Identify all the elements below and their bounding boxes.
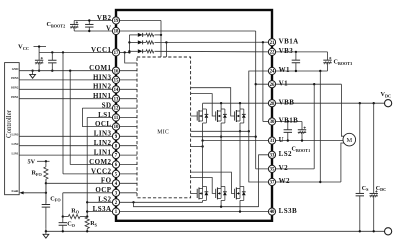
wire V1 external line <box>272 83 341 85</box>
svg-text:HIN3: HIN3 <box>11 76 19 80</box>
node LS3A tap on sense trunk <box>86 210 88 212</box>
node V1 tap <box>255 83 257 85</box>
svg-text:HIN2: HIN2 <box>11 86 19 90</box>
wire LIN2 line <box>19 145 137 147</box>
node row3 feed <box>128 50 130 52</box>
pin 31 U <box>268 137 275 144</box>
wire V2 internal line <box>256 168 272 170</box>
gate driver U1 MIC dashed box <box>137 57 191 198</box>
transistor Q6 low-side W <box>235 186 246 200</box>
node OCP filter junction <box>62 215 64 217</box>
pin 15 HIN3 <box>112 76 119 83</box>
svg-text:37: 37 <box>270 181 275 186</box>
svg-text:V1: V1 <box>279 79 289 87</box>
wire VB2 internal trunk <box>116 20 161 22</box>
svg-text:35: 35 <box>270 167 275 172</box>
wire VCC stub <box>34 46 47 48</box>
resistor RFO <box>45 163 47 167</box>
node row2 feed <box>128 41 130 43</box>
resistor bootstrap R2 <box>143 34 146 36</box>
wire W1-W2 jumper <box>319 71 321 182</box>
svg-text:LIN1: LIN1 <box>12 151 19 155</box>
pin 13 HIN1 <box>112 95 119 102</box>
capacitor VCC ceramic <box>51 52 53 60</box>
diode bootstrap D2 <box>129 34 137 36</box>
pin 10 OCL <box>112 123 119 130</box>
wire gate route Q3 <box>191 88 235 116</box>
pin 11 LS1 <box>112 114 119 121</box>
svg-text:21: 21 <box>270 41 275 46</box>
svg-text:VBB: VBB <box>279 98 295 106</box>
diode bootstrap D3 <box>129 50 137 52</box>
node FET3 drain on VBB rail <box>239 102 241 104</box>
motor M <box>343 133 356 146</box>
svg-text:CDC: CDC <box>376 186 386 192</box>
pin 21 VB1A <box>268 39 275 46</box>
wire Q3 source down <box>239 123 241 131</box>
svg-text:22: 22 <box>270 50 275 55</box>
wire W2 external line <box>272 181 341 183</box>
diode bootstrap D1 <box>129 41 137 43</box>
node CBOOT1 ceramic bottom <box>287 139 289 141</box>
svg-text:31: 31 <box>270 139 275 144</box>
capacitor CBOOT2 ceramic <box>88 21 90 25</box>
wire VB2 external line <box>74 20 116 22</box>
svg-text:LIN1: LIN1 <box>94 149 112 157</box>
svg-text:LS3A: LS3A <box>93 205 112 213</box>
svg-text:GND: GND <box>12 67 20 71</box>
transistor Q3 high-side W <box>235 109 246 123</box>
wire VCC rail <box>39 51 116 53</box>
pin 12 SD <box>112 105 119 112</box>
wire OCL line <box>82 126 137 128</box>
wire VBB external rail <box>272 102 385 104</box>
node Q5 source tap <box>220 206 222 208</box>
transistor Q4 low-side U <box>191 186 209 200</box>
pin 37 W2 <box>268 178 275 185</box>
pin 9 LIN3 <box>112 133 119 140</box>
wire FO line to pin4 <box>46 182 137 184</box>
pin 40 LS3B <box>268 208 275 215</box>
node phase-W FET tap <box>248 130 250 132</box>
svg-text:VB2: VB2 <box>97 14 112 22</box>
pin 24 W1 <box>268 67 275 74</box>
node V jumper top <box>313 83 315 85</box>
wire VB3 row to pin VB3 <box>155 50 273 53</box>
svg-text:12: 12 <box>114 107 119 112</box>
node ground junction on COM1 <box>31 70 33 72</box>
svg-text:16: 16 <box>114 69 119 74</box>
svg-text:MIC: MIC <box>157 129 169 135</box>
wire SD line and tie to OCL <box>82 107 137 109</box>
terminal VDC <box>385 100 392 107</box>
node LS2 tap on sense trunk <box>86 201 88 203</box>
pin 33 LS2 <box>268 151 275 158</box>
svg-text:24: 24 <box>270 70 275 75</box>
svg-text:14: 14 <box>114 88 119 93</box>
svg-text:LIN2: LIN2 <box>94 139 112 147</box>
wire V phase to motor <box>341 84 344 136</box>
node CBOOT3 ceramic top <box>295 51 297 53</box>
svg-text:V: V <box>106 24 112 32</box>
wire U phase line to pin <box>203 140 272 142</box>
wire VB1B external line <box>272 121 302 123</box>
wire V2 external line <box>272 168 314 170</box>
ground symbol near VCC caps <box>32 71 34 75</box>
node VB2 trunk junction <box>160 34 162 36</box>
pin 5 VCC2 <box>112 170 119 177</box>
wire low-side drain verticals <box>202 141 204 189</box>
pin 8 LIN2 <box>112 142 119 149</box>
svg-text:LIN2: LIN2 <box>12 142 19 146</box>
node W jumper bottom <box>319 181 321 183</box>
resistor bootstrap R3 <box>143 50 146 52</box>
wire FO pullup trunk <box>45 161 47 163</box>
controller block <box>5 63 20 195</box>
svg-text:HIN2: HIN2 <box>93 83 112 91</box>
wire MIC V phase line <box>191 136 256 138</box>
wire MIC W phase line <box>191 130 249 132</box>
wire Q2 source down <box>220 123 222 137</box>
wire low-side source verticals <box>202 200 204 202</box>
capacitor CBOOT1 polarized <box>301 122 303 130</box>
capacitor CBOOT3 polarized <box>327 52 329 60</box>
svg-text:U: U <box>279 136 285 144</box>
wire Q1 source to U line <box>202 123 204 141</box>
svg-text:VCC1: VCC1 <box>91 46 112 54</box>
capacitor CBOOT2 polarized <box>73 21 75 25</box>
svg-text:OCP: OCP <box>95 186 111 194</box>
wire COM1 line controller to MIC <box>19 70 137 72</box>
svg-text:LS3B: LS3B <box>279 207 298 215</box>
svg-text:40: 40 <box>270 210 275 215</box>
node rail-A stub <box>132 201 134 203</box>
pin 2 LS2 <box>112 199 119 206</box>
svg-text:VCC2: VCC2 <box>91 167 112 175</box>
svg-text:17: 17 <box>114 51 119 56</box>
svg-text:HIN1: HIN1 <box>11 95 19 99</box>
node VB1 MIC feed <box>165 41 167 43</box>
svg-text:W1: W1 <box>279 66 290 74</box>
wire V phase trunk horizontal <box>116 30 256 32</box>
svg-text:M: M <box>346 137 352 144</box>
node cap bottoms on COM1 line <box>38 70 40 72</box>
wire VB1 row to pin VB1A <box>155 41 273 43</box>
node CDC top <box>373 102 375 104</box>
wire LS2 source rail <box>134 202 259 206</box>
wire COM2 line <box>70 164 137 166</box>
node Fault junction <box>45 192 47 194</box>
node CBOOT1 ceramic top <box>287 120 289 122</box>
capacitor CBOOT3 ceramic <box>295 52 297 60</box>
node FET2 drain on VBB rail <box>220 102 222 104</box>
svg-text:18: 18 <box>114 30 119 35</box>
wire VB3 external line <box>272 51 328 53</box>
wire bootstrap feed vertical <box>128 35 130 53</box>
pin 22 VB3 <box>268 48 275 55</box>
wire W phase to motor <box>341 143 345 182</box>
svg-text:LS2: LS2 <box>279 150 292 158</box>
svg-text:30: 30 <box>270 120 275 125</box>
svg-text:LIN3: LIN3 <box>12 133 19 137</box>
node CBOOT2 junctions <box>88 19 90 21</box>
wire V1 internal line <box>256 83 272 85</box>
pin 18 V <box>112 27 119 34</box>
resistor bootstrap R1 <box>143 41 146 43</box>
svg-text:VB1A: VB1A <box>279 37 299 45</box>
node ground rail junctions <box>62 230 64 232</box>
pin 26 V1 <box>268 81 275 88</box>
capacitor VCC bulk (polarized) <box>38 52 40 60</box>
pin 6 COM2 <box>112 161 119 168</box>
wire LIN1 line <box>19 154 137 156</box>
wire HIN1 line <box>19 98 137 100</box>
svg-text:FO: FO <box>101 177 112 185</box>
pin 17 VCC1 <box>112 49 119 56</box>
wire HIN2 line <box>19 88 137 90</box>
wire LS3 source rail LS3A-LS3B <box>87 211 272 213</box>
svg-text:HIN3: HIN3 <box>93 73 112 81</box>
svg-text:COM2: COM2 <box>89 158 111 166</box>
svg-text:28: 28 <box>270 102 275 107</box>
svg-text:HIN1: HIN1 <box>93 92 112 100</box>
wire VB1 trunk <box>262 42 264 121</box>
svg-text:V2: V2 <box>279 164 289 172</box>
controller pin labels <box>11 67 19 193</box>
wire W1 external line <box>272 70 328 72</box>
wire V phase trunk vertical <box>255 31 257 169</box>
pin 16 COM1 <box>112 67 119 74</box>
svg-text:Fault: Fault <box>12 189 19 193</box>
capacitor CO <box>62 217 64 223</box>
wire V external line <box>74 30 116 32</box>
wire V1-V2 jumper <box>313 84 315 169</box>
node CBOOT1 polarized bottom <box>301 139 303 141</box>
wire ground rail <box>46 230 385 232</box>
node 5V junction <box>45 160 47 162</box>
wire VCC1 jog into MIC <box>125 52 137 63</box>
wire LS2 left line to Q4 source <box>87 201 202 203</box>
node W phase junction <box>239 130 241 132</box>
transistor Q1 high-side U <box>191 109 209 123</box>
wire MIC U sense line <box>191 146 203 148</box>
wire Fault line to controller <box>21 192 46 194</box>
pin 19 VB2 <box>112 17 119 24</box>
wire OCP branch down <box>62 193 64 217</box>
pin 1 LS3A <box>112 208 119 215</box>
wire VCC trunk VCC1-VCC2 <box>62 52 64 173</box>
node FO junction <box>45 182 47 184</box>
svg-text:W2: W2 <box>279 177 290 185</box>
wire LS1 sense trunk <box>86 118 88 218</box>
wire VCC2 line <box>63 173 137 175</box>
node U sense tap <box>201 145 203 147</box>
wire 5V stub <box>37 160 50 162</box>
pin 4 FO <box>112 180 119 187</box>
svg-text:19: 19 <box>114 19 119 24</box>
wire VCC1 stub to bootstrap feed <box>116 51 129 53</box>
wire VBB internal rail <box>203 102 272 104</box>
node VCC stub junction <box>38 45 40 47</box>
svg-text:LS1: LS1 <box>98 111 111 119</box>
wire W phase trunk <box>249 71 272 182</box>
wire OCP line to pin3 <box>63 192 137 194</box>
node CBOOT3 ceramic bottom <box>295 70 297 72</box>
svg-text:33: 33 <box>270 153 275 158</box>
pin 30 VB1B <box>268 118 275 125</box>
pin 7 LIN1 <box>112 152 119 159</box>
pin 28 VBB <box>268 100 275 107</box>
transistor Q5 low-side V <box>216 186 227 200</box>
terminal ground right <box>385 228 392 235</box>
node CDC bottom <box>373 230 375 232</box>
wire LS2 right trunk <box>259 155 272 207</box>
svg-text:13: 13 <box>114 97 119 102</box>
node COM trunk junction <box>69 70 71 72</box>
wire LIN3 line <box>19 135 137 137</box>
node VCC rail junctions <box>51 51 53 53</box>
svg-text:5V: 5V <box>28 158 36 165</box>
pin 35 V2 <box>268 165 275 172</box>
svg-text:COM1: COM1 <box>89 64 111 72</box>
svg-text:SD: SD <box>102 102 112 110</box>
node VB1 trunk junction <box>262 41 264 43</box>
node CS top <box>359 102 361 104</box>
wire HIN3 line <box>19 79 137 81</box>
node Q6 source tap <box>239 210 241 212</box>
wire LS1 line <box>87 117 137 119</box>
capacitor CS <box>359 103 361 193</box>
wire gate route Q6 <box>191 172 235 193</box>
capacitor CDC polarized <box>373 103 375 193</box>
wire COM trunk COM1-COM2 <box>69 71 71 165</box>
svg-text:10: 10 <box>114 125 119 130</box>
node W jumper top <box>319 70 321 72</box>
capacitor CBOOT1 ceramic <box>287 122 289 130</box>
node CS bottom <box>359 230 361 232</box>
wire VB1B internal line <box>263 121 272 123</box>
svg-text:CS: CS <box>362 186 369 192</box>
arrow Fault into controller <box>19 191 23 194</box>
transistor Q2 high-side V <box>216 109 227 123</box>
node bootstrap feed <box>128 51 130 53</box>
resistor RO <box>63 216 69 218</box>
svg-text:LIN3: LIN3 <box>94 130 112 138</box>
wire high-side drain verticals <box>202 103 204 111</box>
ground symbol main <box>45 231 47 234</box>
wire VB1 feed into MIC <box>165 42 167 57</box>
svg-text:11: 11 <box>114 116 119 121</box>
module outline thick <box>116 10 272 221</box>
node U phase junction <box>201 139 203 141</box>
svg-text:OCL: OCL <box>95 120 112 128</box>
svg-text:15: 15 <box>114 78 119 83</box>
svg-text:VB1B: VB1B <box>279 117 299 125</box>
wire U external line to motor <box>272 140 343 142</box>
node R_O tap on sense trunk <box>86 215 88 217</box>
wire gate route Q5 <box>191 178 216 194</box>
node phase-V FET tap <box>255 136 257 138</box>
svg-text:26: 26 <box>270 83 275 88</box>
wire gate route Q2 <box>191 94 216 116</box>
pin 14 HIN2 <box>112 86 119 93</box>
resistor RS shunt <box>85 217 89 229</box>
svg-text:LS2: LS2 <box>98 196 111 204</box>
svg-text:VB3: VB3 <box>279 47 294 55</box>
capacitor CFO <box>45 183 47 204</box>
node MIC feed junction <box>124 51 126 53</box>
node V phase junction <box>220 136 222 138</box>
pin 3 OCP <box>112 189 119 196</box>
